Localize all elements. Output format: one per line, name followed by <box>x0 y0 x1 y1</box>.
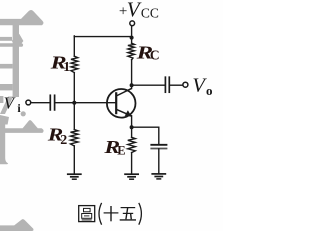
wire: R2 bottom lead <box>73 146 75 174</box>
wire: CE bottom lead <box>158 149 160 174</box>
svg-text:V: V <box>127 0 142 22</box>
transistor Q1 <box>107 88 136 117</box>
svg-text:C: C <box>150 48 160 63</box>
glyph 圖 <box>79 206 95 222</box>
capacitor C1 <box>50 95 54 110</box>
wire: top rail <box>74 36 131 38</box>
wire: Vi to C1 <box>31 102 50 104</box>
label: Vi <box>4 94 22 115</box>
glyph ( <box>99 203 102 225</box>
label: RC <box>135 42 159 62</box>
ground: below R2 <box>67 174 82 179</box>
label: +Vcc <box>119 0 159 22</box>
resistor RC <box>128 43 134 60</box>
wire: C1 to base <box>55 102 116 104</box>
ground: below CE <box>151 174 166 179</box>
svg-text:i: i <box>17 101 21 115</box>
resistor R2 <box>71 130 79 146</box>
wire: C2 to Vo <box>170 84 183 86</box>
node: base junction <box>72 101 76 105</box>
ground: below RE <box>124 174 139 179</box>
terminal: Vo <box>183 82 188 87</box>
svg-text:CC: CC <box>141 6 159 21</box>
svg-text:2: 2 <box>60 133 67 148</box>
wire: emitter branch to CE <box>132 126 159 128</box>
label: R2 <box>47 125 68 148</box>
glyph ) <box>139 203 142 225</box>
wire: RC top lead <box>131 37 133 44</box>
wire: R1 top lead <box>73 36 75 56</box>
wire: R1 bottom lead <box>73 73 75 103</box>
wire: Vcc stub <box>131 26 133 37</box>
capacitor C2 <box>165 77 169 92</box>
svg-text:o: o <box>206 83 213 98</box>
label: Vo <box>192 75 212 98</box>
node: emitter junction <box>130 125 134 129</box>
capacitor CE <box>151 145 166 149</box>
wire: RC to collector node <box>131 60 133 89</box>
terminal: Vi <box>26 100 31 105</box>
caption: 圖(十五) <box>79 203 142 225</box>
wire: emitter down <box>131 116 133 138</box>
label: R1 <box>49 53 70 76</box>
resistor RE <box>128 137 136 152</box>
node: collector junction <box>130 83 134 87</box>
terminal: +Vcc <box>130 21 135 26</box>
resistor R1 <box>71 56 78 72</box>
glyph 五 <box>120 208 136 220</box>
wire: R2 top lead <box>73 103 75 130</box>
wire: CE top lead <box>158 127 160 144</box>
wire: RE bottom lead <box>131 153 133 174</box>
wire: output line <box>132 84 165 86</box>
svg-text:E: E <box>117 143 125 157</box>
glyph 十 <box>104 206 119 221</box>
node: Vcc junction <box>130 36 134 40</box>
label: RE <box>103 137 125 157</box>
svg-text:1: 1 <box>63 60 70 75</box>
